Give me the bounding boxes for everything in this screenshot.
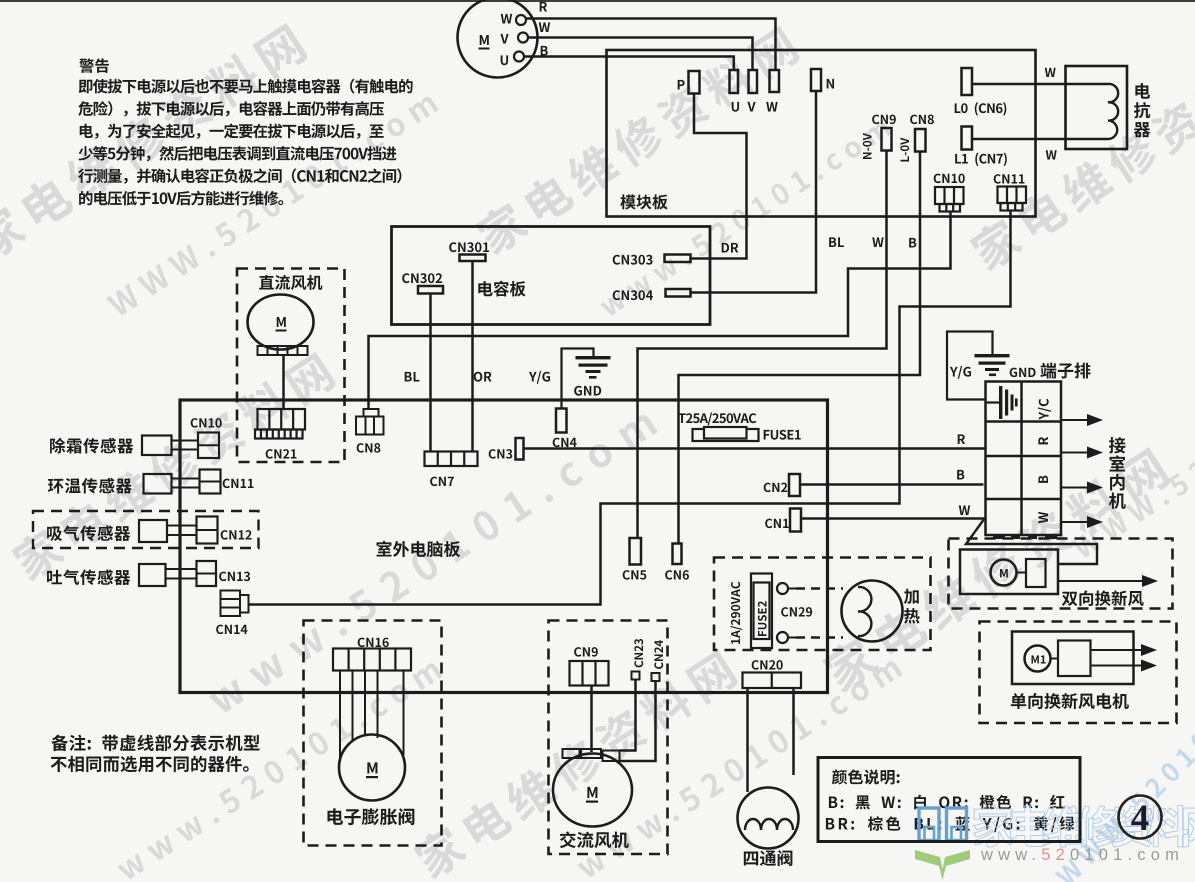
- connector CN16: [333, 649, 411, 671]
- wire label BL: [829, 237, 844, 247]
- reactor label 电抗器: [1135, 83, 1150, 99]
- wire L0 to reactor: [972, 83, 1108, 86]
- watermark cjk bottom: [410, 647, 740, 882]
- suction sensor 吸气传感器 body: [139, 520, 167, 542]
- suction sensor 吸气传感器 connector: [197, 517, 218, 544]
- connector CN302: [418, 286, 443, 294]
- wire DC fan to CN21: [282, 355, 285, 409]
- label CN7 board: [430, 477, 454, 487]
- warning text line 2: [78, 101, 384, 116]
- ambient temp sensor 环温传感器 label 环温传感器: [48, 478, 132, 494]
- wire P to DR: [691, 94, 747, 259]
- watermark cjk left2: [8, 349, 338, 584]
- compressor terminal W: [516, 15, 526, 25]
- compressor motor M circle: [458, 0, 538, 78]
- label CN304: [613, 290, 653, 300]
- terminal block label B rotated: [1038, 476, 1048, 483]
- wire L1 to reactor: [972, 138, 1108, 141]
- label CN3: [489, 449, 513, 459]
- stub CN29 lower: [788, 637, 796, 639]
- connector CN14: [221, 591, 249, 617]
- wire label B: [957, 470, 964, 480]
- watermark cjk topright: [966, 39, 1195, 274]
- label CN302: [402, 273, 442, 283]
- bidirectional fresh air motor M: [991, 560, 1017, 586]
- wire label DR: [722, 243, 739, 253]
- expansion valve motor M: [339, 735, 405, 801]
- watermark url topright: [597, 116, 892, 318]
- label T25A/250VAC: [678, 413, 756, 426]
- svg-text:www.520101.com: www.520101.com: [980, 846, 1184, 864]
- wire label W mid: [872, 237, 883, 247]
- connector CN2: [789, 474, 800, 496]
- heater label 加热: [904, 589, 919, 604]
- watermark url bottomleft: [114, 657, 443, 882]
- label Y/G terminal: [950, 366, 971, 379]
- DC fan motor M: [248, 295, 314, 350]
- connector CN9 module: [882, 128, 892, 151]
- fuse FUSE1 body: [693, 429, 759, 441]
- expansion valve motor label M: [367, 762, 377, 773]
- label FUSE2 rotated: [758, 601, 767, 636]
- watermark url center: [205, 406, 658, 715]
- arrow unidirectional out 2: [1091, 665, 1144, 667]
- terminal P: [689, 71, 700, 94]
- wire BL CN10-module to board CN8: [369, 212, 951, 410]
- label CN303: [613, 255, 653, 265]
- label CN16: [358, 638, 389, 648]
- connector CN20: [743, 673, 802, 689]
- pin CN23: [632, 672, 640, 680]
- wire label W: [959, 505, 970, 515]
- wire B CN8-module to board CN6: [679, 152, 921, 544]
- ground symbol GND (terminal block): [947, 332, 1010, 400]
- label 四通阀: [744, 850, 793, 866]
- wire CN23 to AC motor: [620, 680, 636, 751]
- label CN20: [752, 660, 783, 670]
- reactor coil: [1108, 84, 1118, 139]
- wire N to CN304: [691, 91, 817, 293]
- wire label W reactor top: [1045, 68, 1056, 77]
- connector CN304: [666, 289, 691, 297]
- watermark cjk right: [819, 444, 1172, 696]
- label 接室内机 vertical: [1109, 437, 1126, 453]
- bidirectional fresh air inner box: [960, 550, 1058, 595]
- dashed box heater: [714, 558, 931, 651]
- watermark cjk topmid: [472, 23, 802, 258]
- AC fan motor label M: [587, 787, 597, 798]
- watermark url bottommid: [574, 655, 903, 880]
- four-way valve 四通阀: [738, 788, 799, 849]
- label 交流风机: [560, 831, 629, 848]
- terminal U: [730, 70, 739, 93]
- label CN9 board: [574, 647, 598, 657]
- arrow to indoor unit 2: [1061, 452, 1089, 454]
- label CN6: [665, 570, 689, 580]
- wire label R: [540, 2, 547, 12]
- wire W compressor to module V: [528, 38, 753, 71]
- label CN14: [216, 625, 247, 635]
- label 双向换新风: [1062, 590, 1144, 606]
- wires CN16 to valve motor: [340, 671, 404, 763]
- compressor terminal U: [514, 52, 524, 62]
- label 电子膨胀阀: [327, 808, 414, 825]
- connector CN21: [255, 409, 305, 439]
- connector CN8 board: [356, 409, 384, 435]
- heater 加热 circle: [842, 581, 903, 642]
- label FUSE1: [764, 430, 801, 440]
- discharge sensor 吐气传感器 label 吐气传感器: [47, 569, 130, 585]
- label CN21: [266, 449, 297, 459]
- logo char 家: [973, 805, 1014, 847]
- legend box 颜色说明: [818, 758, 1080, 842]
- label CN5: [623, 570, 647, 580]
- label 单向换新风电机: [1011, 693, 1129, 709]
- connector CN5: [630, 538, 642, 565]
- wire label B: [541, 46, 548, 56]
- connector CN303: [665, 255, 691, 263]
- suction sensor 吸气传感器 label 吸气传感器: [47, 525, 130, 541]
- wire BL CN302 to board CN7: [429, 294, 432, 452]
- wire R CN3 to terminal block: [524, 447, 986, 450]
- wire B compressor to module U: [524, 57, 734, 71]
- label CN2: [764, 483, 788, 493]
- label 端子排: [1040, 363, 1090, 379]
- label CN9 module: [872, 115, 896, 125]
- compressor terminal V: [518, 33, 528, 43]
- ground symbol GND (computer board CN4): [562, 349, 611, 410]
- terminal V: [749, 70, 758, 93]
- legend title 颜色说明: [832, 769, 900, 784]
- discharge sensor 吐气传感器 body: [139, 564, 166, 586]
- wire M to capacitor: [1017, 572, 1027, 574]
- label CN29: [781, 607, 812, 617]
- wire M1 to capacitor: [1051, 658, 1059, 660]
- connector CN6: [673, 544, 682, 565]
- module board label 模块板: [620, 194, 667, 209]
- label L-0V rotated: [900, 138, 909, 162]
- wire label B mid: [909, 238, 916, 248]
- ambient temp sensor 环温传感器 body: [144, 474, 172, 494]
- heater coil symbol: [858, 587, 871, 636]
- wire W diagonal to fresh air box: [966, 519, 1097, 565]
- watermark url right: [1071, 356, 1195, 560]
- wire W CN9-module to board CN5: [638, 151, 887, 539]
- dashed box suction sensor: [33, 511, 259, 548]
- label CN10 board: [191, 418, 222, 428]
- terminal CN29 upper: [777, 583, 788, 594]
- legend line 3: [826, 816, 1074, 832]
- terminal L1: [962, 127, 973, 150]
- terminal W: [770, 70, 780, 92]
- compressor terminal label U: [501, 55, 508, 65]
- logo book base green: [915, 850, 970, 880]
- terminal N: [811, 69, 821, 91]
- page number circle: [1119, 796, 1162, 839]
- label N: [827, 79, 834, 89]
- module board 模块板: [607, 50, 1036, 217]
- bidirectional fresh air capacitor: [1026, 559, 1046, 587]
- legend line 2: [829, 795, 1065, 810]
- defrost sensor 除霜传感器 connector: [198, 433, 219, 459]
- logo book icon: [919, 808, 967, 841]
- label CN4: [553, 438, 577, 448]
- dashed box AC fan 交流风机: [549, 621, 668, 855]
- DC fan motor label M: [277, 317, 286, 327]
- arrow to indoor unit 4: [1061, 521, 1089, 523]
- defrost sensor 除霜传感器 body: [142, 436, 172, 456]
- compressor terminal label V: [500, 34, 508, 44]
- connector CN11 module: [998, 187, 1027, 211]
- connector CN7 board: [425, 452, 478, 467]
- connector CN1: [790, 509, 801, 532]
- warning text line 6: [79, 191, 283, 206]
- defrost sensor 除霜传感器 label 除霜传感器: [50, 438, 133, 454]
- label N-0V rotated: [863, 133, 872, 159]
- capacitor board 电容板: [392, 227, 711, 325]
- ambient temp sensor 环温传感器 connector: [200, 470, 221, 494]
- warning title 警告: [79, 58, 109, 73]
- DC fan label 直流风机: [259, 275, 322, 290]
- terminal CN29 lower: [777, 632, 788, 643]
- connector CN301: [460, 255, 486, 262]
- compressor terminal label W: [501, 14, 512, 24]
- wire label OR cap: [474, 372, 492, 382]
- capacitor board label 电容板: [478, 281, 525, 297]
- stub CN29 upper: [788, 588, 796, 590]
- wire label R: [958, 434, 965, 444]
- label CN23 rotated: [634, 639, 643, 667]
- wire CN24 to AC motor: [620, 681, 656, 761]
- fuse FUSE2 element: [754, 583, 770, 640]
- remark line 2: [51, 756, 249, 773]
- arrow bidirectional fresh air out: [1058, 580, 1144, 582]
- label GND terminal: [1010, 368, 1036, 378]
- connector CN8 module: [915, 129, 926, 152]
- wire OR CN301 to board CN7: [471, 261, 474, 452]
- terminal L0: [962, 68, 973, 95]
- label CN11 board: [223, 479, 254, 489]
- bidirectional fresh air motor label M: [1000, 569, 1008, 578]
- label V: [747, 102, 755, 112]
- label L1 (CN7): [955, 153, 1007, 166]
- dashed box bidirectional fresh air 双向换新风: [949, 539, 1173, 609]
- terminal block 端子排: [986, 382, 1062, 536]
- label CN1: [765, 519, 789, 529]
- terminal block ground cell symbol: [998, 386, 1018, 419]
- connector CN10 module: [935, 187, 964, 212]
- scan border top edge: [0, 0, 1195, 2]
- wire CN20 left to valve: [746, 688, 749, 792]
- watermark url bottomright: [1054, 716, 1195, 882]
- warning text line 4: [78, 146, 396, 161]
- fuse FUSE1 element: [704, 427, 747, 439]
- label W: [766, 102, 777, 112]
- wire label BL cap: [405, 372, 420, 382]
- arrow to indoor unit 3: [1061, 487, 1089, 489]
- four-way valve coil symbol: [745, 819, 793, 830]
- DC fan motor base: [258, 346, 308, 355]
- dashed wire CN29 to heater bottom: [796, 636, 843, 639]
- label CN8 module: [910, 115, 934, 125]
- dashed wire CN29 to heater top: [796, 587, 843, 590]
- label P: [678, 80, 685, 90]
- label CN13 board: [219, 572, 250, 582]
- board label 室外电脑板: [376, 541, 460, 557]
- unidirectional fresh air motor M1: [1025, 646, 1051, 672]
- wire R compressor to module W: [526, 19, 776, 71]
- reactor box 电抗器: [1066, 66, 1128, 149]
- connector CN9 board: [570, 661, 609, 686]
- label CN24 rotated: [654, 640, 663, 669]
- dashed box unidirectional fresh air 单向换新风电机: [980, 622, 1177, 724]
- unidirectional motor label M1: [1032, 655, 1046, 663]
- AC fan motor M: [553, 754, 632, 827]
- outdoor computer board 室外电脑板: [180, 400, 828, 693]
- watermark url left: [106, 90, 439, 318]
- wire label Y/G cap: [529, 371, 550, 384]
- warning text line 3: [80, 124, 384, 139]
- label U: [732, 102, 739, 112]
- terminal block feet: [993, 535, 1057, 539]
- label L0 (CN6): [955, 102, 1007, 115]
- wire CN20 right to valve: [792, 688, 795, 775]
- wire B CN2 to terminal block: [800, 483, 984, 486]
- wire label W reactor bottom: [1046, 150, 1057, 159]
- compressor label M: [480, 35, 489, 45]
- wire W CN1 to terminal block: [801, 517, 985, 520]
- label 1A/290VAC rotated: [730, 582, 742, 644]
- arrow to indoor unit 1: [1061, 419, 1089, 421]
- svg-text:4: 4: [1131, 798, 1150, 839]
- terminal block label W rotated: [1038, 512, 1048, 523]
- label CN12 board: [221, 530, 252, 540]
- label CN10 module: [934, 174, 965, 184]
- warning text line 5: [78, 168, 401, 183]
- connector CN4: [556, 409, 567, 433]
- unidirectional fresh air capacitor: [1058, 641, 1091, 677]
- connector CN3: [516, 438, 524, 460]
- AC fan motor terminals: [563, 749, 620, 761]
- dashed box DC fan 直流风机: [237, 269, 345, 463]
- label GND left: [574, 386, 601, 396]
- label CN8 board: [357, 443, 381, 453]
- terminal block label R rotated: [1038, 437, 1048, 444]
- wire CN11-module to board CN14: [249, 211, 1011, 605]
- remark line 1 备注: [51, 735, 259, 752]
- dashed box expansion valve 电子膨胀阀: [304, 621, 442, 846]
- discharge sensor 吐气传感器 connector: [197, 561, 217, 586]
- label CN301: [449, 242, 489, 252]
- wire CN9 to AC motor: [590, 686, 593, 753]
- wire label W: [539, 22, 550, 32]
- watermark cjk topleft: [0, 20, 309, 264]
- terminal block label Y/C rotated: [1038, 399, 1051, 420]
- pin CN24: [652, 673, 660, 681]
- arrow unidirectional out 1: [1091, 649, 1144, 651]
- fuse FUSE2 body: [751, 574, 772, 649]
- unidirectional fresh air inner box: [1012, 632, 1134, 685]
- warning text line 1: [79, 79, 413, 94]
- label CN11 module: [994, 174, 1025, 184]
